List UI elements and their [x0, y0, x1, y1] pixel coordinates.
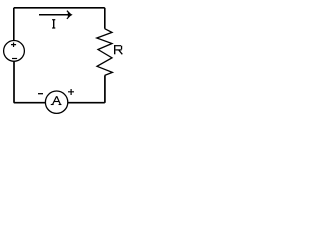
minus polarity label: [38, 93, 43, 95]
wire left upper: [13, 8, 15, 41]
battery source: [4, 41, 25, 62]
wire right upper: [104, 8, 106, 29]
plus polarity label: [68, 89, 74, 95]
wire right lower: [104, 75, 106, 102]
label R: [114, 45, 122, 54]
wire bottom left: [14, 102, 46, 104]
wire bottom right: [68, 102, 105, 104]
resistor R: [97, 29, 113, 76]
wire top: [14, 7, 105, 9]
ammeter letter A: [51, 96, 62, 104]
wire left lower: [13, 61, 15, 103]
current arrow: [39, 11, 72, 19]
ammeter meter circle: [45, 91, 67, 113]
label I: [52, 20, 55, 28]
battery minus terminal: [12, 58, 17, 60]
battery plus terminal: [11, 43, 16, 48]
